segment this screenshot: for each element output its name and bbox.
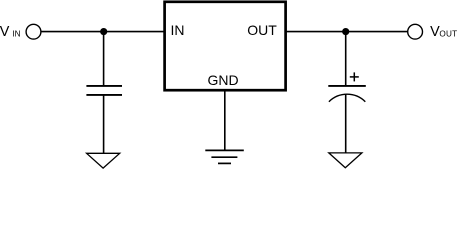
svg-text:OUT: OUT	[439, 30, 457, 39]
node VOUT terminal	[408, 24, 423, 39]
capacitor C2 positive plate	[328, 85, 366, 87]
wire OUT pin to VOUT terminal	[286, 31, 408, 33]
wire junction down to capacitor C2	[345, 32, 347, 86]
junction output node	[342, 28, 349, 35]
earth ground bar 3	[218, 162, 231, 164]
label VOUT	[430, 24, 457, 40]
label VIN	[0, 24, 21, 40]
plus polarity mark	[350, 72, 359, 81]
svg-text:V: V	[0, 24, 10, 40]
wire GND pin to earth ground	[224, 91, 226, 151]
capacitor C2 curved plate	[329, 94, 365, 102]
svg-text:IN: IN	[12, 30, 20, 39]
svg-text:GND: GND	[208, 72, 239, 88]
wire junction down to capacitor C1	[103, 32, 105, 86]
earth ground bar 1	[205, 149, 244, 151]
capacitor C1 top plate	[86, 85, 122, 87]
capacitor C1 bottom plate	[86, 94, 122, 96]
svg-text:OUT: OUT	[247, 22, 277, 38]
wire VIN terminal to IN pin	[41, 31, 165, 33]
node VIN terminal	[26, 24, 41, 39]
ground chassis triangle right	[329, 153, 362, 168]
wire C2 to ground	[345, 94, 347, 153]
junction input node	[100, 28, 107, 35]
regulator U1 box	[165, 2, 286, 90]
svg-text:IN: IN	[171, 22, 185, 38]
wire C1 to ground	[103, 95, 105, 153]
ground chassis triangle left	[87, 153, 120, 168]
earth ground bar 2	[211, 156, 237, 158]
